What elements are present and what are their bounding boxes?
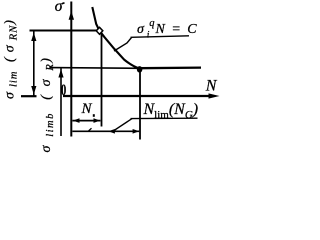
- svg-text:N = C: N = C: [155, 22, 199, 37]
- equation leader line to curve: [114, 38, 132, 52]
- svg-text:σ: σ: [137, 22, 145, 37]
- svg-text:N: N: [205, 78, 218, 95]
- sigma_limb dimension arrow line: [58, 69, 63, 137]
- label sigma_limb (sigma_R) rotated: [39, 49, 56, 152]
- horizontal branch (endurance limit line): [140, 66, 201, 69]
- sigma_R construction level line: [50, 67, 139, 70]
- equation underline: [131, 36, 190, 38]
- sigma_RN level line: [30, 30, 98, 32]
- curve point marker (diamond at N_i, sigma_RN): [96, 27, 103, 34]
- dimension row N_i: [72, 118, 100, 123]
- svg-text:N: N: [81, 101, 93, 117]
- N_i vertical construction line: [101, 34, 103, 127]
- knee point dot at N_lim: [137, 66, 143, 72]
- sigma axis (vertical stress axis): [69, 2, 74, 137]
- svg-text:σlimb (σR): σlimb (σR): [39, 49, 56, 152]
- fatigue curve descending branch: [92, 7, 140, 69]
- label N_lim (N_G): [143, 101, 199, 121]
- tick mark near sigma label: [62, 3, 65, 4]
- dimension row N_lim: [72, 128, 139, 133]
- svg-text:q: q: [149, 18, 154, 29]
- N axis (horizontal cycles axis): [63, 93, 220, 98]
- sigma_RN dimension arrow line (left): [21, 32, 37, 97]
- svg-text:Nlim(NG): Nlim(NG): [143, 101, 199, 121]
- svg-text:σ: σ: [55, 0, 64, 15]
- label N_lim (N_G) leader and underline: [113, 118, 198, 131]
- svg-text:0: 0: [61, 81, 66, 99]
- label sigma_lim (sigma_RN) rotated: [3, 15, 20, 99]
- svg-text:σlim (σRN): σlim (σRN): [3, 15, 20, 99]
- svg-text:i: i: [147, 31, 150, 41]
- N_lim vertical construction line: [139, 69, 141, 140]
